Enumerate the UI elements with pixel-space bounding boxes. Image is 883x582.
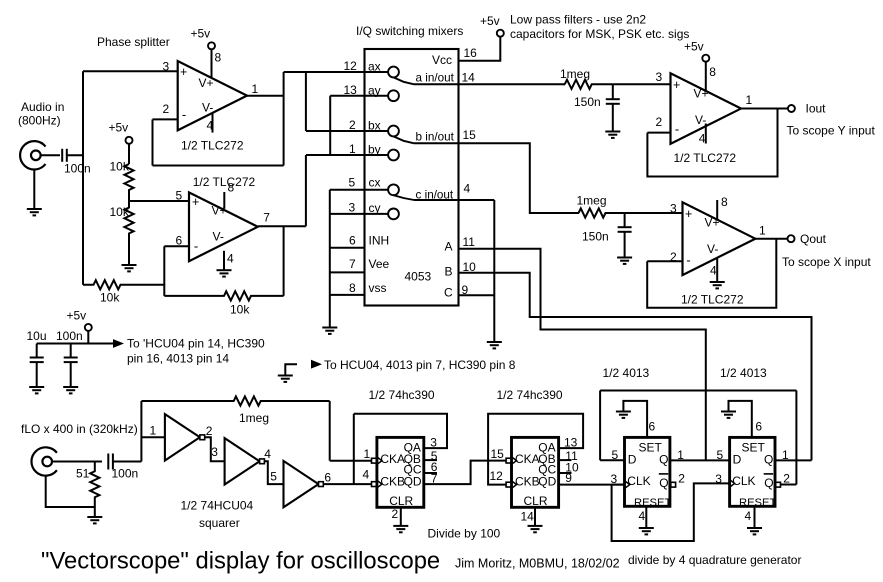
svg-text:I/Q switching mixers: I/Q switching mixers — [356, 24, 463, 38]
svg-text:+: + — [685, 207, 692, 221]
svg-text:Iout: Iout — [806, 102, 827, 116]
BNC connector J2 fLO in — [31, 447, 56, 475]
wire R5 to U3a pin3 — [613, 83, 671, 85]
bubble CKA2 — [506, 458, 511, 463]
svg-text:B: B — [445, 265, 453, 279]
svg-text:51: 51 — [76, 467, 90, 481]
svg-text:QD: QD — [538, 475, 556, 489]
wire divider to ground — [128, 240, 130, 265]
wire U3b pin2 line — [647, 260, 682, 262]
svg-text:squarer: squarer — [199, 516, 240, 530]
IC U2 4053 box — [365, 49, 459, 306]
wire 150n C5 stem top — [612, 84, 614, 99]
wire QD2 to CLK nodes — [559, 484, 625, 486]
clock wedge CKB1 — [378, 481, 382, 487]
ground C6 — [617, 258, 632, 264]
svg-text:10k: 10k — [110, 205, 130, 219]
svg-text:1: 1 — [150, 424, 157, 438]
svg-text:10k: 10k — [100, 291, 120, 305]
wire C7 to ground — [36, 362, 38, 387]
wire D1 loop riser — [599, 391, 601, 461]
wire R2 riser to U1b output — [283, 226, 285, 296]
bubble Qbar1 — [671, 482, 676, 487]
wire U1b pin6 line — [164, 245, 189, 247]
wire U1b pin4 stem — [223, 251, 225, 270]
wire U4c out to CKB1 line — [323, 483, 371, 485]
wire J1 shield stem — [33, 169, 35, 209]
svg-text:To 'HCU04 pin 14, HC390: To 'HCU04 pin 14, HC390 — [127, 337, 265, 351]
terminal Iout — [788, 105, 795, 112]
arrow to HCU04 grounds — [311, 360, 322, 369]
svg-text:1/2 TLC272: 1/2 TLC272 — [674, 151, 737, 165]
ground C8 — [63, 387, 78, 393]
svg-text:4053: 4053 — [405, 270, 432, 284]
switch circle cx — [388, 184, 399, 195]
svg-text:D: D — [628, 453, 637, 467]
svg-text:1meg: 1meg — [239, 411, 269, 425]
svg-text:3: 3 — [656, 70, 663, 84]
wire U2 pin1 by line — [306, 154, 388, 156]
wire U1b output — [258, 225, 306, 227]
wire riser x305.9 output to by/ay — [305, 155, 307, 226]
bubble Qbar2 — [776, 482, 781, 487]
svg-text:8: 8 — [709, 65, 716, 79]
supply +5v terminal divider — [126, 137, 133, 144]
svg-text:A: A — [445, 240, 453, 254]
svg-text:5: 5 — [176, 189, 183, 203]
capacitor C9 100n — [108, 454, 113, 470]
ground SET1 — [616, 412, 631, 418]
svg-text:2: 2 — [349, 118, 356, 132]
resistor R5 1meg — [565, 80, 613, 89]
ground R8 — [87, 517, 102, 523]
resistor R1 10k input from audio node — [83, 280, 164, 289]
wire stub QB2 — [559, 459, 572, 461]
svg-text:cx: cx — [369, 176, 381, 190]
svg-text:vss: vss — [369, 281, 387, 295]
svg-text:RESET: RESET — [739, 497, 776, 509]
bubble CKB1 — [372, 482, 377, 487]
wire RESET2 stem — [754, 506, 756, 528]
svg-text:CKB: CKB — [380, 475, 405, 489]
capacitor C7 10u — [30, 358, 44, 363]
wire Q1 to D2 — [670, 459, 730, 461]
svg-text:4: 4 — [710, 264, 717, 278]
svg-text:+5v: +5v — [480, 14, 500, 28]
svg-text:V-: V- — [707, 242, 718, 256]
svg-text:4: 4 — [264, 447, 271, 461]
svg-text:fLO x 400 in (320kHz): fLO x 400 in (320kHz) — [21, 422, 138, 436]
svg-text:CLK: CLK — [627, 474, 650, 488]
wire U2 pin7 Vee line — [330, 271, 365, 273]
svg-text:1/2 74HCU04: 1/2 74HCU04 — [181, 499, 254, 513]
wire SET2 to ground — [729, 401, 752, 438]
svg-text:+5v: +5v — [191, 27, 211, 41]
op-amp U3a 1/2 TLC272 Iout buffer — [671, 73, 742, 144]
op-amp U3b 1/2 TLC272 Qout buffer — [683, 202, 756, 275]
resistor R6 1meg — [579, 208, 625, 217]
svg-text:100n: 100n — [56, 329, 83, 343]
svg-text:1meg: 1meg — [577, 194, 607, 208]
svg-text:16: 16 — [464, 46, 478, 60]
op-amp U1a 1/2 TLC272 non-inverting buffer — [178, 61, 247, 130]
svg-text:CKA: CKA — [515, 452, 540, 466]
bubble CKB2 — [506, 482, 511, 487]
svg-text:Q: Q — [659, 453, 668, 467]
svg-text:4: 4 — [745, 509, 752, 523]
svg-text:1/2 4013: 1/2 4013 — [720, 366, 767, 380]
wire SET1 to ground — [623, 401, 647, 438]
wire J2 center to C9 — [52, 461, 102, 463]
svg-text:4: 4 — [699, 131, 706, 145]
svg-text:-: - — [686, 253, 690, 268]
ground logic tie — [278, 376, 293, 382]
clock wedge CKA2 — [512, 457, 516, 463]
svg-text:RESET: RESET — [634, 497, 671, 509]
svg-text:To scope Y input: To scope Y input — [787, 124, 876, 138]
svg-text:4: 4 — [227, 252, 234, 266]
wire C5 to ground — [612, 104, 614, 132]
wire C8 stem — [70, 344, 72, 358]
wire C7 stem — [36, 344, 38, 358]
svg-text:Divide by 100: Divide by 100 — [428, 527, 501, 541]
wire op-amp U1 pin3 input line — [83, 70, 178, 72]
svg-text:15: 15 — [463, 128, 477, 142]
svg-text:6: 6 — [349, 234, 356, 248]
switch lever c — [394, 195, 415, 200]
switch lever b — [394, 136, 415, 143]
svg-text:7: 7 — [263, 210, 270, 224]
svg-text:3: 3 — [670, 202, 677, 216]
wire U2 pin5 cx line — [330, 189, 388, 191]
wire U3b feedback — [647, 239, 776, 308]
wire stub QC2 — [559, 472, 572, 474]
wire U2 pin2 bx line — [306, 130, 388, 132]
svg-text:(800Hz): (800Hz) — [18, 114, 61, 128]
svg-text:b in/out: b in/out — [416, 131, 455, 144]
wire QA2 feedback loop — [488, 414, 583, 485]
svg-text:CKB: CKB — [515, 475, 540, 489]
svg-text:D: D — [733, 453, 742, 467]
wire D1 loop top from Qbar2 — [600, 390, 796, 392]
svg-text:CKA: CKA — [380, 452, 405, 466]
wire U3a pin8 stem — [705, 61, 707, 91]
wire J2 shield loop — [46, 476, 95, 507]
svg-text:1: 1 — [364, 447, 371, 461]
ground CLR2 — [528, 526, 543, 532]
arrow to HCU04 supply — [113, 339, 124, 348]
svg-text:12: 12 — [344, 59, 358, 73]
wire U2 pin13 ay line — [330, 95, 388, 97]
capacitor C1 100n audio coupling — [62, 149, 67, 162]
svg-text:C: C — [444, 286, 453, 300]
ground RESET2 — [747, 528, 762, 534]
svg-text:1: 1 — [252, 82, 259, 96]
terminal Qout — [788, 235, 795, 242]
svg-text:V-: V- — [213, 229, 224, 243]
svg-text:14: 14 — [462, 71, 476, 85]
svg-text:CLK: CLK — [732, 474, 755, 488]
wire U2 pin12 ax line — [284, 71, 388, 73]
IC U5 74hc390 box first — [377, 437, 424, 507]
switch circle by — [388, 150, 399, 161]
wire clock node line to CKA1 — [330, 460, 371, 462]
wire stub QB1 — [424, 459, 437, 461]
svg-text:a in/out: a in/out — [416, 72, 455, 85]
svg-text:Phase splitter: Phase splitter — [97, 35, 170, 49]
wire riser x330.2 ay to by line — [329, 96, 331, 155]
svg-text:+5v: +5v — [67, 309, 87, 323]
capacitor C5 150n — [606, 99, 620, 104]
svg-text:5: 5 — [349, 176, 356, 190]
svg-text:1/2 TLC272: 1/2 TLC272 — [681, 293, 744, 307]
svg-text:Q: Q — [659, 476, 668, 490]
svg-text:8: 8 — [721, 195, 728, 209]
wire CLK1 line — [612, 484, 626, 486]
svg-text:ay: ay — [368, 84, 381, 98]
wire U2 pin15 b in/out to filter — [414, 143, 579, 213]
wire QA1 feedback loop to top — [354, 414, 447, 448]
svg-text:2: 2 — [656, 115, 663, 129]
wire D1 input line — [600, 459, 625, 461]
svg-text:cy: cy — [369, 201, 381, 215]
clock wedge CLK1 — [626, 481, 630, 487]
svg-text:1: 1 — [759, 224, 766, 238]
svg-text:1/2 74hc390: 1/2 74hc390 — [497, 388, 563, 402]
svg-text:15: 15 — [491, 447, 505, 461]
svg-text:Q: Q — [764, 453, 773, 467]
resistor R3 10k upper divider — [124, 164, 133, 201]
ground C5 — [605, 132, 620, 138]
switch circle cy — [388, 209, 399, 220]
wire U1a pin4 stem — [212, 113, 214, 133]
svg-text:+: + — [192, 195, 199, 209]
resistor R7 1meg — [141, 396, 329, 405]
wire CLR2 stem — [534, 507, 536, 526]
wire U1a feedback left riser — [152, 119, 154, 165]
ground J1 shield — [27, 209, 42, 215]
resistor R8 51 ohm — [90, 462, 99, 508]
switch lever a — [394, 77, 415, 84]
wire U3a pin2 line — [647, 132, 670, 134]
wire phase-splitter input vertical from audio coupling to inverting 10k — [82, 71, 84, 284]
svg-text:Low pass filters - use 2n2: Low pass filters - use 2n2 — [510, 13, 646, 27]
svg-text:1/2 74hc390: 1/2 74hc390 — [369, 388, 435, 402]
svg-text:+5v: +5v — [684, 40, 704, 54]
inverter U4c 74HCU04 — [284, 461, 319, 507]
wire U2 pin4 c in/out down to ground — [414, 199, 494, 201]
wire U3a feedback — [647, 109, 777, 177]
svg-text:3: 3 — [163, 60, 170, 74]
clock wedge CKB2 — [512, 481, 516, 487]
svg-text:12: 12 — [490, 469, 504, 483]
svg-text:capacitors for MSK, PSK etc. s: capacitors for MSK, PSK etc. sigs — [510, 27, 689, 41]
ground U3b pin4 — [710, 282, 725, 288]
supply +5v terminal U1a — [208, 42, 215, 49]
wire U2 pin3 cy line — [330, 213, 388, 215]
ground c net — [487, 342, 502, 348]
wire +5v to R3 — [128, 143, 130, 164]
svg-text:100n: 100n — [112, 467, 139, 481]
svg-text:2: 2 — [783, 472, 790, 486]
svg-text:SET: SET — [742, 441, 766, 455]
svg-text:Qout: Qout — [800, 232, 827, 246]
capacitor C6 150n — [618, 227, 632, 232]
svg-text:11: 11 — [463, 235, 476, 249]
svg-text:100n: 100n — [64, 162, 91, 176]
wire J1 center to C1 — [41, 154, 60, 156]
svg-text:Vcc: Vcc — [432, 53, 452, 67]
wire C6 to ground — [624, 232, 626, 258]
svg-text:divide by 4 quadrature generat: divide by 4 quadrature generator — [628, 553, 801, 567]
wire ground tie for logic — [285, 364, 297, 375]
wire U2 pin14 a in/out to filter — [414, 83, 565, 85]
svg-text:8: 8 — [349, 281, 356, 295]
svg-text:2: 2 — [678, 472, 685, 486]
wire riser clock to inverter output — [353, 414, 355, 484]
svg-text:13: 13 — [344, 83, 358, 97]
svg-text:3: 3 — [349, 201, 356, 215]
wire U2 pin10 B to 4013 Q2 — [459, 273, 812, 461]
svg-text:2: 2 — [206, 424, 213, 438]
svg-text:10k: 10k — [110, 160, 130, 174]
svg-text:+: + — [180, 65, 187, 79]
wire U4a input line — [141, 436, 165, 438]
wire +5v to U2 pin16 Vcc — [459, 37, 501, 61]
wire U1a output — [247, 95, 284, 97]
wire Q2 line to B riser — [775, 459, 812, 461]
svg-text:-: - — [182, 107, 186, 122]
svg-text:1/2 TLC272: 1/2 TLC272 — [193, 175, 256, 189]
svg-text:V-: V- — [695, 113, 706, 127]
svg-text:"Vectorscope" display for osci: "Vectorscope" display for oscilloscope — [41, 548, 440, 575]
svg-text:5: 5 — [270, 470, 277, 484]
wire U3a pin4 stem — [705, 124, 707, 144]
wire C9 to inverter input riser — [113, 461, 141, 463]
wire C8 to ground — [70, 362, 72, 387]
wire CLK interlink — [612, 483, 731, 541]
wire U2 pin9 C line — [459, 294, 495, 296]
wire R6 to U3b pin3 — [625, 212, 683, 214]
ground bus ground — [322, 328, 337, 334]
BNC connector J1 Audio in — [20, 141, 45, 169]
wire riser x305.9 ax to bx — [305, 72, 307, 131]
switch circle ax — [388, 67, 399, 78]
svg-text:14: 14 — [521, 510, 535, 524]
wire riser inverter input — [140, 401, 142, 462]
svg-text:+5v: +5v — [109, 121, 129, 135]
supply +5v terminal U3a — [702, 55, 709, 62]
svg-text:pin 16, 4013 pin 14: pin 16, 4013 pin 14 — [127, 352, 229, 366]
wire R8 to ground — [94, 507, 96, 517]
supply +5v terminal Vcc — [497, 30, 504, 37]
IC U7a 4013 box first — [625, 437, 670, 506]
supply +5v terminal decoupling — [85, 324, 92, 331]
svg-text:CLR: CLR — [524, 494, 548, 508]
svg-text:CLR: CLR — [389, 494, 413, 508]
wire node riser x283.6 pin12 to feedback — [283, 72, 285, 166]
svg-text:7: 7 — [349, 257, 356, 271]
ground U1b pin4 — [217, 270, 232, 276]
wire stub QC1 — [424, 472, 437, 474]
svg-text:1/2 4013: 1/2 4013 — [603, 366, 650, 380]
svg-text:1meg: 1meg — [560, 67, 590, 81]
IC U7b 4013 box second — [730, 437, 775, 506]
svg-text:Audio in: Audio in — [21, 100, 64, 114]
svg-text:V-: V- — [202, 101, 213, 115]
svg-text:10u: 10u — [27, 329, 47, 343]
wire riser x163 pin6 node — [163, 246, 165, 296]
wire U2 pin11 A to 4013 Q1 — [459, 249, 706, 461]
svg-text:QD: QD — [404, 475, 422, 489]
wire CLR1 stem — [400, 507, 402, 526]
ground RESET1 — [639, 528, 654, 534]
svg-text:bx: bx — [368, 119, 381, 133]
svg-text:To scope X input: To scope X input — [782, 255, 871, 269]
wire R7 right riser to clock node — [329, 401, 331, 461]
wire RESET1 stem — [645, 506, 647, 528]
wire +5v stem to rail — [87, 331, 89, 344]
clock wedge CKA1 — [378, 458, 382, 464]
wire ground bus left of U2 — [329, 190, 331, 328]
svg-text:4: 4 — [464, 182, 471, 196]
wire U1b pin8 stem — [223, 192, 225, 209]
ground C7 — [29, 387, 44, 393]
svg-text:6: 6 — [755, 420, 762, 434]
clock wedge CLK2 — [730, 480, 734, 486]
wire decoupling rail — [37, 343, 113, 345]
svg-text:To HCU04, 4013 pin 7, HC390 pi: To HCU04, 4013 pin 7, HC390 pin 8 — [324, 358, 516, 372]
wire U2 pin6 INH line — [330, 247, 365, 249]
ground divider — [122, 265, 137, 271]
svg-text:4: 4 — [639, 509, 646, 523]
wire C1 to node at x83 — [67, 154, 83, 156]
resistor R2 10k feedback U1b — [164, 291, 283, 300]
svg-text:Vee: Vee — [369, 257, 390, 271]
wire U1a pin2 line — [153, 118, 178, 120]
svg-text:-: - — [194, 239, 198, 254]
wire U3a output — [741, 108, 788, 110]
svg-text:1/2 TLC272: 1/2 TLC272 — [181, 139, 244, 153]
inverter U4b 74HCU04 — [225, 438, 260, 484]
svg-text:+: + — [673, 78, 680, 92]
wire Qbar2 stub — [780, 484, 796, 486]
wire U2 pin8 vss line — [330, 294, 365, 296]
svg-text:3: 3 — [211, 445, 218, 459]
op-amp U1b 1/2 TLC272 inverting amp — [189, 192, 258, 261]
bubble CKA1 — [372, 458, 377, 463]
wire U2a pin5 line from divider tap — [129, 200, 189, 202]
wire U1a pin8 stem — [211, 49, 213, 78]
wire U3b pin8 stem — [716, 200, 718, 220]
svg-text:6: 6 — [649, 420, 656, 434]
wire U4a out to U4b in — [205, 437, 225, 461]
svg-text:ax: ax — [368, 60, 381, 74]
svg-text:150n: 150n — [574, 95, 601, 109]
svg-text:Jim Moritz, M0BMU, 18/02/02: Jim Moritz, M0BMU, 18/02/02 — [455, 557, 620, 571]
switch circle ay — [388, 90, 399, 101]
wire 150n C6 stem top — [624, 213, 626, 227]
svg-text:2: 2 — [392, 507, 399, 521]
svg-text:10k: 10k — [230, 303, 250, 317]
wire QD1 to CKA2 — [424, 461, 506, 485]
wire U1a feedback bottom — [153, 165, 284, 167]
wire U3b output — [753, 238, 788, 240]
capacitor C8 100n — [64, 358, 78, 363]
IC U6 74hc390 box second — [512, 437, 559, 507]
svg-text:1: 1 — [746, 93, 753, 107]
wire U3b pin4 stem — [716, 257, 718, 282]
